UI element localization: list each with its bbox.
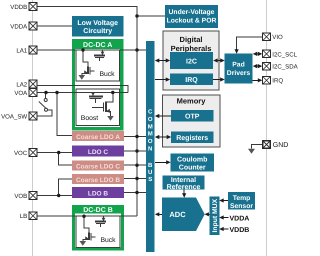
pin I2C_SCL <box>263 50 298 58</box>
svg-text:B: B <box>148 162 153 169</box>
svg-text:Pad: Pad <box>232 62 244 69</box>
pin LA2 <box>16 80 36 88</box>
arrow Pad Drivers-I2C_SDA bidirectional <box>253 64 263 68</box>
pin VOA <box>14 89 36 97</box>
arrow Internal Reference to ADC <box>182 190 186 198</box>
junction VOC branch <box>57 151 60 154</box>
wire VOA_SW to switch <box>36 110 52 116</box>
junction VOA LDO-A tap <box>55 91 58 94</box>
transistor boost switch FET <box>92 93 113 117</box>
junction VOA switch tap <box>44 91 47 94</box>
svg-text:LDO C: LDO C <box>88 149 109 156</box>
Input MUX block <box>210 197 220 236</box>
svg-text:O: O <box>148 138 153 145</box>
arrow Pad Drivers-I2C_SCL bidirectional <box>253 52 263 56</box>
wire Coarse LDO C out to bus <box>124 164 146 166</box>
svg-text:I2C_SCL: I2C_SCL <box>272 51 297 58</box>
svg-text:Coarse LDO C: Coarse LDO C <box>76 163 120 170</box>
ground GND pin <box>248 149 255 154</box>
Coarse LDO C block <box>72 161 124 171</box>
junction VDDB-UVLO tap <box>135 14 138 17</box>
arrow VDDB to Input MUX <box>219 227 228 231</box>
svg-text:Peripherals: Peripherals <box>171 44 212 53</box>
wire Coarse LDO B out to bus <box>124 178 146 180</box>
svg-text:VDDB: VDDB <box>10 4 27 11</box>
svg-text:M: M <box>148 123 153 130</box>
svg-text:Boost: Boost <box>81 115 98 122</box>
arrow VDDA to Input MUX <box>219 215 228 219</box>
svg-text:VOA_SW: VOA_SW <box>1 113 27 120</box>
arrow Pad Drivers to IRQ pin <box>253 78 263 82</box>
svg-text:N: N <box>148 146 152 153</box>
wire LB into DC-DC B <box>36 215 137 217</box>
svg-text:Coarse LDO B: Coarse LDO B <box>76 177 120 184</box>
svg-text:IRQ: IRQ <box>272 78 283 85</box>
svg-text:C: C <box>148 109 153 116</box>
svg-text:Memory: Memory <box>177 97 207 106</box>
svg-text:Counter: Counter <box>179 164 206 171</box>
Coarse LDO A block <box>72 131 124 141</box>
wire Coarse LDO A out to bus <box>124 136 146 138</box>
wire VOC to LDO C <box>36 152 72 154</box>
package boundary line right <box>266 0 268 256</box>
LDO C block <box>72 146 124 157</box>
Memory block <box>163 95 221 147</box>
transistor buck B low-side FET <box>83 216 96 241</box>
svg-text:I2C_SDA: I2C_SDA <box>272 64 298 71</box>
wire VOB branch to Coarse LDO B <box>59 179 72 196</box>
switch VOA_SW <box>39 93 48 112</box>
I2C block <box>170 52 213 69</box>
svg-text:VOC: VOC <box>14 150 28 157</box>
svg-text:GND: GND <box>273 142 289 149</box>
arrow Registers-bus bidirectional <box>155 135 171 139</box>
svg-text:S: S <box>148 176 152 183</box>
svg-text:LB: LB <box>20 213 27 220</box>
svg-text:Sensor: Sensor <box>230 203 253 210</box>
svg-text:Drivers: Drivers <box>227 70 251 77</box>
svg-text:O: O <box>148 116 153 123</box>
svg-text:Digital: Digital <box>180 35 203 44</box>
svg-text:LDO B: LDO B <box>88 190 109 197</box>
svg-text:Input MUX: Input MUX <box>212 198 219 232</box>
svg-text:Low Voltage: Low Voltage <box>77 19 118 27</box>
svg-text:Coarse LDO A: Coarse LDO A <box>76 134 120 141</box>
svg-text:IRQ: IRQ <box>185 77 198 84</box>
ADC block <box>162 198 205 232</box>
arrow Input MUX to ADC <box>204 212 209 216</box>
svg-text:Coulomb: Coulomb <box>177 155 207 163</box>
pin VIO <box>263 33 283 41</box>
wire VDDB rail <box>36 7 137 217</box>
Low Voltage Circuitry block <box>72 16 124 37</box>
ground Boost <box>107 116 114 121</box>
pin LA1 <box>16 46 36 54</box>
pin LB <box>20 212 37 220</box>
svg-text:Temp: Temp <box>233 195 251 202</box>
svg-text:Circuitry: Circuitry <box>83 27 112 35</box>
wire VOB to LDO B <box>36 195 72 197</box>
junction rail / Coarse LDO C out <box>135 164 138 167</box>
wire LA2 wrap <box>37 85 128 92</box>
svg-text:Buck: Buck <box>100 237 116 244</box>
junction buck A input <box>81 48 84 51</box>
svg-text:LA2: LA2 <box>16 81 27 88</box>
wire UVLO tap <box>137 15 165 17</box>
svg-text:DC-DC A: DC-DC A <box>83 42 112 49</box>
arrow OTP to bus <box>155 114 171 118</box>
pin VOB <box>14 192 36 200</box>
ground Buck A <box>79 75 86 80</box>
arrow bus-I2C bidirectional <box>155 58 170 62</box>
junction rail / LDO B out <box>135 191 138 194</box>
Internal Reference block <box>162 175 204 190</box>
svg-text:VOB: VOB <box>14 193 27 200</box>
transistor buck A high-side FET <box>94 50 105 61</box>
Boost inner box <box>76 89 120 126</box>
junction VDDB rail / LA1 wire <box>135 48 138 51</box>
OTP block <box>171 110 214 122</box>
pin IRQ pin <box>263 77 284 85</box>
LDO B block <box>72 187 124 198</box>
junction VOB branch <box>57 194 60 197</box>
Coulomb Counter block <box>171 154 215 172</box>
transistor boost rectifier FET <box>89 92 103 102</box>
wire VOA <box>36 92 128 94</box>
DC-DC A block <box>72 39 124 129</box>
wire VOC branch to Coarse LDO C <box>59 153 72 166</box>
svg-text:OTP: OTP <box>185 114 200 121</box>
Buck A inner box <box>76 50 120 81</box>
svg-text:U: U <box>148 169 152 176</box>
svg-text:Internal: Internal <box>171 176 196 184</box>
arrow I2C-Pad Drivers bidirectional <box>213 58 225 62</box>
pin VOC <box>14 149 37 157</box>
svg-text:VDDB: VDDB <box>230 227 250 234</box>
wire LDO B out to bus <box>124 192 146 194</box>
Pad Drivers block <box>225 54 253 84</box>
arrow VIO into Pad Drivers <box>235 49 239 54</box>
svg-text:Buck: Buck <box>99 71 115 78</box>
svg-text:VOA: VOA <box>14 90 28 97</box>
Registers block <box>171 131 214 143</box>
pin I2C_SDA <box>263 62 299 70</box>
svg-text:DC-DC B: DC-DC B <box>83 207 113 214</box>
Buck B inner box <box>76 216 120 248</box>
pin GND <box>263 141 289 150</box>
pin VDDA <box>10 22 37 30</box>
svg-text:ADC: ADC <box>169 210 186 219</box>
arrow ADC to bus <box>155 212 162 216</box>
svg-text:Registers: Registers <box>176 134 208 142</box>
arrow IRQ to Pad Drivers <box>213 77 225 81</box>
transistor buck B high-side FET <box>95 216 106 227</box>
junction buck B input <box>82 215 85 218</box>
junction rail / Coarse LDO A out <box>135 135 138 138</box>
COMMON BUS bar <box>146 41 155 252</box>
svg-text:M: M <box>148 131 153 138</box>
Digital Peripherals block <box>163 31 219 90</box>
svg-text:VDDA: VDDA <box>230 215 250 222</box>
wire VDDA to LVC <box>36 25 72 27</box>
wire VOA branch to Coarse LDO A <box>57 93 72 136</box>
wire LDO C out to bus <box>124 150 146 152</box>
Temp Sensor block <box>228 192 255 210</box>
svg-text:Lockout & POR: Lockout & POR <box>167 18 217 25</box>
IRQ block <box>170 74 213 86</box>
wire LA1 to bus <box>36 49 146 51</box>
Under-Voltage Lockout & POR block <box>165 5 218 28</box>
ground Buck B <box>80 241 87 246</box>
DC-DC B block <box>72 205 124 249</box>
arrow bus to IRQ <box>155 77 170 81</box>
Coarse LDO B block <box>72 174 124 184</box>
wire VIO to Pad Drivers <box>237 37 263 51</box>
junction boost switch node <box>111 91 114 94</box>
wire GND pin to ground <box>252 145 264 149</box>
arrow Temp Sensor to Input MUX <box>219 198 228 202</box>
pin VOA_SW <box>1 112 37 120</box>
svg-text:I2C: I2C <box>186 58 197 65</box>
svg-text:Reference: Reference <box>167 183 201 191</box>
arrow bus to Coulomb Counter <box>155 160 171 164</box>
svg-text:Under-Voltage: Under-Voltage <box>169 9 215 16</box>
transistor buck A low-side FET <box>82 50 95 75</box>
package boundary line left <box>32 0 34 256</box>
svg-text:LA1: LA1 <box>16 47 27 54</box>
junction rail / Coarse LDO B out <box>135 177 138 180</box>
junction rail / LDO C out <box>135 149 138 152</box>
svg-text:VIO: VIO <box>272 34 283 41</box>
pin VDDB <box>10 3 37 11</box>
svg-text:VDDA: VDDA <box>10 23 28 30</box>
